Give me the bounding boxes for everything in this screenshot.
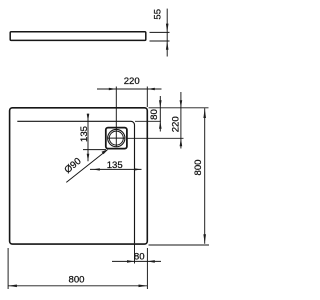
- extension: left corner down: [7, 248, 9, 289]
- side view tray body: [10, 32, 146, 41]
- arrow left at right ext: [147, 260, 155, 263]
- arrow down to top edge: [159, 100, 162, 108]
- dimension 800 right line: [204, 108, 206, 244]
- arrow down to rim line: [87, 114, 90, 122]
- svg-text:220: 220: [170, 116, 181, 132]
- leader arrowhead: [102, 149, 109, 154]
- arrow up tip top edge: [203, 109, 206, 118]
- arrow left tip: [8, 285, 17, 288]
- dimension 800 bottom line: [8, 285, 147, 287]
- svg-text:80: 80: [149, 109, 160, 120]
- arrow down lower: [87, 154, 90, 162]
- arrow left end: [93, 168, 100, 170]
- arrow up to rim line: [159, 121, 162, 129]
- extension: top edge to right: [149, 107, 209, 109]
- dimension 135 vertical line: [87, 114, 89, 162]
- arrow right at drain centerline: [109, 88, 117, 91]
- arrow right tip: [139, 285, 148, 288]
- extension: bottom edge to right: [149, 244, 210, 246]
- drain outer circle: [108, 129, 125, 146]
- arrow down tip bottom edge: [203, 234, 206, 243]
- inner rim line: [17, 121, 134, 243]
- drain square: [106, 128, 127, 149]
- arrow right at inner ext: [127, 260, 135, 263]
- svg-text:135: 135: [79, 126, 90, 142]
- dimension 220 right line: [180, 92, 182, 149]
- extension line bottom (side view): [150, 40, 170, 42]
- extension: inner line down: [134, 244, 136, 263]
- arrow left at right edge: [147, 88, 155, 91]
- dimension 135 horizontal line: [90, 168, 142, 170]
- inner rim extension right: [135, 120, 161, 122]
- plan view outer square: [10, 108, 148, 244]
- drain square bottom extension left: [83, 149, 106, 151]
- drain crosshair vertical: [115, 129, 117, 147]
- dimension line 55: [166, 9, 168, 57]
- drain horizontal centerline extension right: [128, 137, 184, 139]
- dimension 220 top line: [97, 88, 162, 90]
- dimension 80 bottom line: [112, 260, 161, 262]
- extension line top (side view): [150, 31, 170, 33]
- extension: right edge up: [146, 87, 148, 108]
- arrow down to top edge: [180, 100, 183, 108]
- svg-text:800: 800: [68, 274, 84, 285]
- svg-text:Ø90: Ø90: [63, 156, 84, 176]
- svg-text:55: 55: [152, 9, 163, 20]
- arrow down to top line: [166, 24, 169, 33]
- drain crosshair horizontal: [108, 137, 126, 139]
- drain inner circle: [109, 131, 123, 145]
- leader line diagonal: [66, 150, 107, 183]
- arrow right end: [134, 168, 141, 170]
- svg-text:80: 80: [134, 251, 145, 262]
- drain vertical centerline up: [115, 87, 117, 130]
- arrow up to bottom line: [166, 41, 169, 50]
- dimension 80 right line: [159, 96, 161, 132]
- extension: right edge down: [146, 248, 148, 289]
- svg-text:800: 800: [193, 159, 204, 175]
- arrow up to drain centerline: [180, 138, 183, 146]
- svg-text:135: 135: [107, 160, 123, 171]
- svg-text:220: 220: [124, 76, 140, 87]
